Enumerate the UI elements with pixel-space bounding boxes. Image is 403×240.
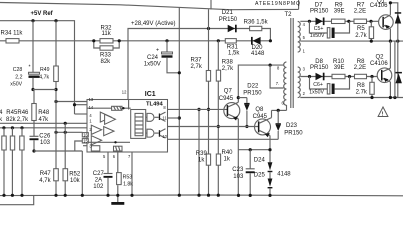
svg-text:+5V Ref: +5V Ref <box>31 11 54 17</box>
svg-text:R7: R7 <box>357 2 365 8</box>
svg-text:R40: R40 <box>222 150 234 156</box>
svg-text:1x50V: 1x50V <box>309 89 324 95</box>
svg-text:D25: D25 <box>254 173 266 179</box>
svg-text:Q2: Q2 <box>376 55 385 61</box>
svg-text:x50V: x50V <box>10 82 22 88</box>
svg-text:R8: R8 <box>357 83 365 89</box>
svg-text:ATEE19N8PMQ: ATEE19N8PMQ <box>255 1 300 7</box>
svg-text:D21: D21 <box>222 10 234 16</box>
svg-text:1x50V: 1x50V <box>310 33 325 39</box>
svg-text:1x50V: 1x50V <box>144 62 161 68</box>
svg-text:39E: 39E <box>334 8 345 14</box>
svg-text:12: 12 <box>122 90 127 95</box>
svg-text:R53: R53 <box>123 174 133 180</box>
svg-text:C5+: C5+ <box>314 26 324 32</box>
svg-text:15: 15 <box>83 139 88 144</box>
svg-text:D7: D7 <box>315 2 323 8</box>
svg-text:R39: R39 <box>196 151 208 157</box>
svg-text:+28,49V (Active): +28,49V (Active) <box>131 21 176 27</box>
svg-text:R9: R9 <box>335 2 343 8</box>
svg-text:102: 102 <box>93 184 104 190</box>
svg-text:13: 13 <box>89 97 94 102</box>
svg-text:2,2E: 2,2E <box>354 8 366 14</box>
svg-text:IC1: IC1 <box>145 91 156 98</box>
svg-text:PR150: PR150 <box>310 65 329 71</box>
svg-text:2,7k: 2,7k <box>222 66 234 72</box>
svg-text:C4106: C4106 <box>370 3 388 9</box>
svg-text:11: 11 <box>162 116 167 121</box>
svg-text:1,5k: 1,5k <box>228 50 240 56</box>
svg-text:R38: R38 <box>222 59 234 65</box>
svg-text:R10: R10 <box>333 59 345 65</box>
svg-text:4,7k: 4,7k <box>39 178 51 184</box>
svg-text:10: 10 <box>162 134 167 139</box>
svg-text:*: * <box>29 65 31 71</box>
svg-text:2,7k: 2,7k <box>17 117 29 123</box>
svg-text:R45: R45 <box>6 110 18 116</box>
svg-text:R47: R47 <box>40 171 52 177</box>
svg-text:D24: D24 <box>254 157 266 163</box>
svg-text:D23: D23 <box>286 123 298 129</box>
svg-text:2A: 2A <box>95 178 102 184</box>
svg-text:R49: R49 <box>40 67 50 73</box>
svg-text:!: ! <box>382 111 384 117</box>
svg-text:R37: R37 <box>191 58 203 64</box>
svg-text:R34 11k: R34 11k <box>1 31 24 37</box>
svg-text:R52: R52 <box>69 171 81 177</box>
svg-text:Q7: Q7 <box>224 89 233 95</box>
svg-text:7.: 7. <box>276 81 279 86</box>
svg-text:T2: T2 <box>285 12 293 18</box>
svg-text:+: + <box>156 48 159 54</box>
svg-text:R46: R46 <box>17 110 29 116</box>
svg-text:R48: R48 <box>38 110 50 116</box>
svg-text:C27: C27 <box>93 171 105 177</box>
svg-text:2.7k: 2.7k <box>355 33 367 39</box>
svg-text:4,7k: 4,7k <box>39 75 49 81</box>
svg-text:103: 103 <box>40 140 51 146</box>
svg-text:11k: 11k <box>102 31 112 37</box>
svg-text:103: 103 <box>233 174 244 180</box>
svg-text:1.8k: 1.8k <box>123 181 133 187</box>
svg-text:R5: R5 <box>357 26 365 32</box>
svg-text:PR150: PR150 <box>219 17 238 23</box>
svg-text:2,2: 2,2 <box>15 75 22 81</box>
svg-text:2,2E: 2,2E <box>354 65 366 71</box>
svg-text:C945: C945 <box>253 114 268 120</box>
svg-text:82k: 82k <box>101 59 112 65</box>
svg-text:R33: R33 <box>100 53 112 59</box>
svg-text:1k: 1k <box>198 158 205 164</box>
svg-text:4148: 4148 <box>277 172 291 178</box>
svg-text:C26: C26 <box>39 134 51 140</box>
svg-text:D8: D8 <box>315 59 323 65</box>
svg-text:C945: C945 <box>219 96 234 102</box>
svg-text:R8: R8 <box>357 59 365 65</box>
svg-text:R36 1,5k: R36 1,5k <box>244 19 269 25</box>
svg-text:PR150: PR150 <box>243 91 262 97</box>
svg-text:39E: 39E <box>334 65 345 71</box>
svg-text:14: 14 <box>89 105 94 110</box>
svg-text:C24: C24 <box>147 55 159 61</box>
svg-text:C28: C28 <box>13 67 23 73</box>
svg-text:C23: C23 <box>232 167 244 173</box>
svg-text:10k: 10k <box>70 178 81 184</box>
svg-text:47k: 47k <box>39 117 50 123</box>
svg-text:16: 16 <box>83 133 88 138</box>
svg-text:C4106: C4106 <box>370 61 388 67</box>
svg-text:82k: 82k <box>6 117 17 123</box>
svg-text:D22: D22 <box>247 84 259 90</box>
svg-text:2.7k: 2.7k <box>356 90 368 96</box>
svg-text:4148: 4148 <box>251 51 265 57</box>
svg-text:2,7k: 2,7k <box>191 64 203 70</box>
svg-text:PR150: PR150 <box>284 130 303 136</box>
svg-text:PR150: PR150 <box>310 8 329 14</box>
svg-text:Q8: Q8 <box>255 107 264 113</box>
svg-text:TL494: TL494 <box>146 102 164 108</box>
svg-text:C6+: C6+ <box>313 82 323 88</box>
svg-text:1k: 1k <box>224 157 231 163</box>
